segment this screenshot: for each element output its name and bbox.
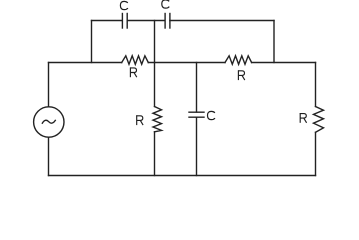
resistor R4 (right vertical)	[314, 107, 324, 133]
wire middle branch lower	[154, 132, 156, 176]
wire left branch lower	[48, 137, 50, 175]
label C of capacitor C2	[162, 0, 170, 8]
label R of resistor R1	[130, 67, 137, 77]
wire bottom rail	[49, 175, 316, 177]
wire middle branch upper (node between capacitors down to mid rail)	[154, 21, 156, 63]
label C of capacitor C1	[120, 1, 128, 9]
wire middle branch to resistor	[154, 63, 156, 107]
wire mid rail right segment	[252, 62, 316, 64]
resistor R3 (middle vertical)	[153, 107, 162, 132]
resistor R1 (horizontal left)	[122, 56, 149, 65]
label C of capacitor C3	[208, 111, 216, 119]
wire top rail left segment	[92, 20, 123, 22]
wire right branch lower	[315, 132, 317, 175]
wire capacitor branch upper	[196, 63, 198, 113]
wire top rail middle segment	[127, 20, 165, 22]
label R of resistor R2	[238, 70, 245, 80]
capacitor C1 (top left)	[122, 14, 127, 29]
wire cap-loop right vertical	[273, 21, 275, 63]
wire right branch upper	[315, 63, 317, 107]
label R of resistor R4	[300, 113, 307, 123]
wire left branch upper	[48, 63, 50, 107]
wire mid rail left segment	[49, 62, 122, 64]
wire top rail right segment	[170, 20, 274, 22]
capacitor C3 (middle vertical)	[189, 112, 204, 117]
resistor R2 (horizontal right)	[225, 56, 252, 65]
capacitor C2 (top right)	[165, 14, 170, 29]
wire capacitor branch lower	[196, 117, 198, 175]
wire cap-loop left vertical	[91, 21, 93, 63]
label R of resistor R3	[136, 115, 143, 125]
AC source V1	[34, 107, 64, 137]
wire mid rail center segment	[148, 62, 225, 64]
AC source tilde symbol	[42, 120, 55, 123]
